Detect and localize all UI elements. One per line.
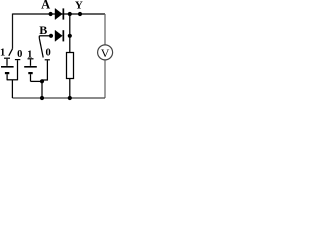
node: diode B cathode junction dot <box>68 34 72 38</box>
svg-text:B: B <box>39 23 47 37</box>
battery G1 long plate <box>1 66 14 68</box>
wire: battery G2 negative lead <box>30 74 32 81</box>
svg-text:A: A <box>41 0 50 11</box>
wire: resistor bottom lead <box>69 79 71 99</box>
switch S2 lever (thrown toward 0) <box>39 38 43 57</box>
wire: right rail upper to voltmeter <box>104 14 106 45</box>
wire: B input wire <box>39 35 51 37</box>
wire: S2 contact 0 post and elbow to junction <box>42 60 47 80</box>
diode D-B (triangle + cathode bar) <box>55 30 64 41</box>
svg-text:0: 0 <box>17 49 22 60</box>
svg-text:V: V <box>101 46 110 60</box>
wire: junction drop to bottom rail <box>41 81 43 98</box>
node Y dot <box>78 12 82 16</box>
svg-text:Y: Y <box>75 0 83 12</box>
battery G1 short plate <box>5 72 9 74</box>
switch S2 contact 1 bar <box>28 58 34 59</box>
wire: left rail <box>12 14 14 49</box>
switch S1 contact 1 bar <box>4 58 10 59</box>
node: diode B anode junction dot <box>49 34 53 38</box>
wire: bottom rail <box>12 97 105 99</box>
svg-text:0: 0 <box>45 48 50 59</box>
node: junction dot to resistor branch <box>68 12 72 16</box>
wire: B corner stub to switch 2 pivot <box>38 36 40 39</box>
switch S1 lever (thrown to 1) <box>9 49 13 56</box>
wire: S1 contact 0 post <box>17 60 19 80</box>
wire: G2 lead to junction <box>31 80 43 82</box>
wire: battery G1 negative lead <box>6 74 8 80</box>
battery G1 post <box>6 59 8 66</box>
switch S2 contact 0 bar <box>45 59 50 60</box>
wire: S1 bus <box>7 79 17 81</box>
battery G2 short plate <box>28 72 32 74</box>
wire: top rail <box>13 13 106 15</box>
wire: node column from top wire down to resistor <box>69 14 71 53</box>
voltmeter U-V <box>98 45 113 60</box>
node: diode A anode junction dot <box>49 12 53 16</box>
node: resistor-rail junction dot <box>68 96 72 100</box>
node: S2-rail junction dot <box>40 96 44 100</box>
svg-text:1: 1 <box>0 48 5 59</box>
resistor R <box>67 53 74 79</box>
wire: S1 bus center drop to bottom rail <box>11 80 13 98</box>
switch S1 contact 0 bar <box>15 59 20 60</box>
node: S2 bus junction dot <box>40 79 44 83</box>
battery G2 long plate <box>24 66 37 68</box>
wire: right rail lower from voltmeter <box>104 60 106 98</box>
diode D-A (triangle + cathode bar) <box>55 8 64 19</box>
battery G2 post <box>30 59 32 65</box>
